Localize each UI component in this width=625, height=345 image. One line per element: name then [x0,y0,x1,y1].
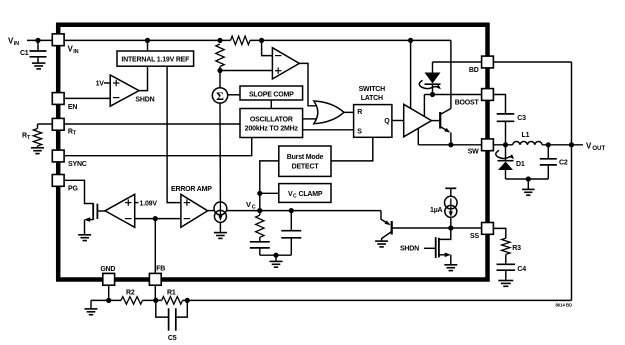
svg-text:C5: C5 [168,335,177,342]
svg-text:CLAMP: CLAMP [299,191,323,198]
svg-text:INTERNAL 1.19V REF: INTERNAL 1.19V REF [121,56,190,63]
svg-text:BD: BD [469,67,479,74]
svg-text:200kHz TO 2MHz: 200kHz TO 2MHz [245,125,299,132]
svg-text:PG: PG [68,186,78,193]
svg-text:FB: FB [156,265,165,272]
svg-text:Σ: Σ [216,89,224,103]
svg-text:R1: R1 [167,290,176,297]
svg-text:SHDN: SHDN [135,96,154,103]
svg-text:1µA: 1µA [430,207,443,214]
svg-text:R3: R3 [512,245,521,252]
svg-text:C3: C3 [517,115,526,122]
svg-text:V: V [246,200,251,209]
svg-text:C2: C2 [559,160,568,167]
svg-text:S: S [357,128,362,135]
svg-text:D1: D1 [516,161,525,168]
svg-text:OSCILLATOR: OSCILLATOR [250,116,293,123]
svg-text:SWITCH: SWITCH [359,86,386,93]
svg-text:C4: C4 [517,266,526,273]
svg-text:SLOPE COMP: SLOPE COMP [249,92,294,99]
svg-text:IN: IN [73,49,78,55]
svg-text:C: C [293,193,297,199]
svg-text:LATCH: LATCH [361,95,383,102]
svg-text:V: V [586,141,592,150]
svg-text:1.09V: 1.09V [140,200,158,207]
svg-text:DETECT: DETECT [292,163,320,170]
svg-text:Q: Q [384,118,390,125]
svg-text:SYNC: SYNC [68,161,87,168]
svg-text:BOOST: BOOST [455,100,480,107]
svg-text:GND: GND [100,266,115,273]
svg-text:R: R [357,109,362,116]
svg-text:OUT: OUT [592,145,605,152]
svg-text:R2: R2 [126,290,135,297]
svg-text:ERROR AMP: ERROR AMP [171,186,212,193]
svg-text:C: C [252,204,256,210]
svg-text:1V: 1V [96,81,105,88]
svg-text:C1: C1 [20,50,29,57]
svg-text:SS: SS [470,233,479,240]
svg-text:EN: EN [68,104,77,111]
svg-text:IN: IN [14,41,19,47]
svg-text:L1: L1 [522,132,530,139]
svg-text:8614 BD: 8614 BD [555,303,572,308]
svg-text:SW: SW [468,148,479,155]
svg-text:Burst Mode: Burst Mode [287,154,324,161]
svg-text:SHDN: SHDN [400,245,419,252]
